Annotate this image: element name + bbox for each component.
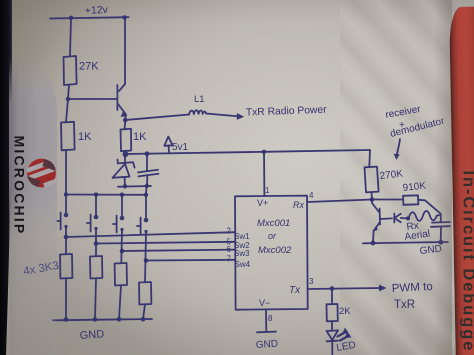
svg-text:receiver: receiver bbox=[385, 104, 423, 121]
svg-text:1K: 1K bbox=[133, 131, 147, 143]
svg-text:Aerial: Aerial bbox=[404, 229, 431, 243]
svg-text:V−: V− bbox=[259, 298, 270, 308]
svg-text:Sw3: Sw3 bbox=[234, 249, 250, 258]
svg-text:LED: LED bbox=[336, 340, 357, 354]
svg-text:Sw1: Sw1 bbox=[234, 232, 250, 241]
svg-text:270K: 270K bbox=[379, 169, 404, 182]
svg-text:1K: 1K bbox=[78, 131, 92, 143]
svg-text:2K: 2K bbox=[339, 306, 351, 317]
svg-text:3: 3 bbox=[309, 277, 314, 286]
svg-text:L1: L1 bbox=[194, 94, 205, 105]
svg-text:Mxc002: Mxc002 bbox=[258, 245, 292, 256]
svg-text:Sw4: Sw4 bbox=[235, 260, 251, 269]
svg-text:TxR Radio Power: TxR Radio Power bbox=[246, 105, 328, 119]
svg-text:2: 2 bbox=[227, 227, 232, 236]
svg-text:910K: 910K bbox=[402, 181, 427, 194]
svg-text:1: 1 bbox=[265, 186, 270, 195]
svg-text:6: 6 bbox=[227, 245, 232, 254]
svg-text:PWM to: PWM to bbox=[392, 281, 433, 295]
svg-text:Rx: Rx bbox=[293, 200, 304, 210]
svg-text:Mxc001: Mxc001 bbox=[257, 218, 290, 229]
svg-text:GND: GND bbox=[255, 338, 278, 351]
svg-text:8: 8 bbox=[268, 314, 273, 323]
svg-text:7: 7 bbox=[227, 255, 232, 264]
svg-text:or: or bbox=[268, 231, 277, 241]
svg-text:27K: 27K bbox=[79, 61, 99, 73]
svg-text:4: 4 bbox=[309, 191, 314, 200]
svg-text:TxR: TxR bbox=[394, 299, 415, 311]
svg-text:Tx: Tx bbox=[289, 285, 301, 296]
svg-text:5v1: 5v1 bbox=[172, 142, 189, 153]
svg-text:GND: GND bbox=[79, 328, 104, 342]
svg-text:V+: V+ bbox=[257, 198, 268, 208]
svg-text:+12v: +12v bbox=[85, 4, 109, 17]
